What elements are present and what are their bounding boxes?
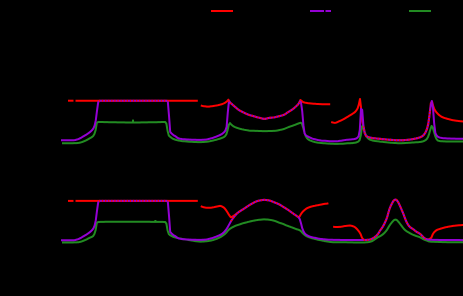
top green curve (62, 122, 463, 144)
bottom red middle section (201, 200, 329, 217)
legend green sample (409, 10, 431, 12)
bottom red start dash (68, 200, 74, 202)
top green tick (132, 120, 134, 122)
bottom green tick (154, 220, 156, 222)
legend red sample (211, 10, 233, 12)
bottom red dashes over violet (overlap) (99, 200, 168, 202)
bottom green curve (62, 219, 463, 242)
top red dashes over violet (overlap) (99, 100, 168, 102)
bottom red right section (333, 200, 463, 241)
top red start dash (68, 100, 74, 102)
top red plateau (76, 100, 198, 102)
bottom violet curve (61, 200, 463, 241)
top violet curve (61, 101, 463, 141)
top red right section (331, 99, 463, 140)
legend violet dashed sample (310, 10, 324, 12)
bottom red plateau (76, 200, 198, 202)
top red middle section (201, 100, 330, 119)
